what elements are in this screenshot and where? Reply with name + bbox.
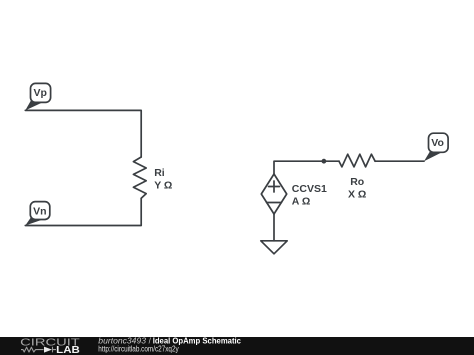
svg-text:Vn: Vn — [33, 205, 46, 217]
svg-text:LAB: LAB — [56, 345, 80, 355]
svg-text:Vo: Vo — [431, 137, 444, 149]
svg-text:Ri: Ri — [154, 167, 165, 179]
svg-text:Y Ω: Y Ω — [154, 179, 172, 191]
svg-text:X Ω: X Ω — [348, 189, 366, 201]
svg-text:Ro: Ro — [350, 176, 364, 188]
svg-text:CCVS1: CCVS1 — [292, 183, 327, 195]
svg-text:Vp: Vp — [33, 87, 46, 99]
svg-text:http://circuitlab.com/c27xq2y: http://circuitlab.com/c27xq2y — [98, 344, 178, 353]
svg-text:A Ω: A Ω — [292, 196, 311, 208]
